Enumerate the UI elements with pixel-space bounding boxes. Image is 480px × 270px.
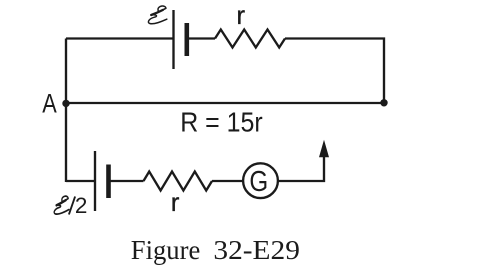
- svg-text:r: r: [236, 0, 245, 30]
- svg-text:R = 15r: R = 15r: [180, 107, 263, 138]
- svg-text:Figure: Figure: [131, 235, 201, 265]
- svg-text:r: r: [171, 187, 180, 217]
- svg-text:32-E29: 32-E29: [213, 235, 300, 265]
- svg-text:2: 2: [75, 193, 88, 218]
- svg-text:G: G: [249, 166, 268, 198]
- svg-text:A: A: [42, 89, 57, 119]
